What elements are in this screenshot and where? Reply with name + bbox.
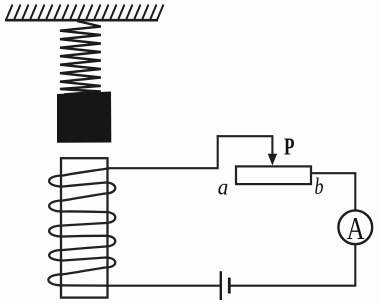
- slider arrow P (points down onto rheostat): [268, 154, 277, 166]
- mass block M: [57, 92, 111, 143]
- battery: short plate (negative): [228, 278, 231, 294]
- wire: rheostat b to ammeter: [311, 173, 355, 210]
- spring (zigzag between ceiling and mass): [60, 21, 101, 95]
- svg-text:a: a: [218, 175, 229, 200]
- wire: top horizontal to slider: [217, 136, 273, 155]
- svg-text:A: A: [347, 210, 365, 246]
- wire: battery to coil bottom: [107, 285, 220, 287]
- coil core (rectangle): [61, 158, 108, 297]
- wire: ammeter to battery: [231, 244, 356, 286]
- svg-text:b: b: [315, 174, 324, 199]
- wire: coil top to rheostat riser: [107, 135, 218, 168]
- coil winding (5 turns): [48, 168, 115, 285]
- battery: long plate (positive): [220, 271, 222, 300]
- rheostat body: [236, 166, 311, 184]
- svg-text:P: P: [284, 135, 295, 161]
- ceiling (fixed support with hatching): [5, 5, 164, 21]
- ammeter A: [338, 210, 372, 244]
